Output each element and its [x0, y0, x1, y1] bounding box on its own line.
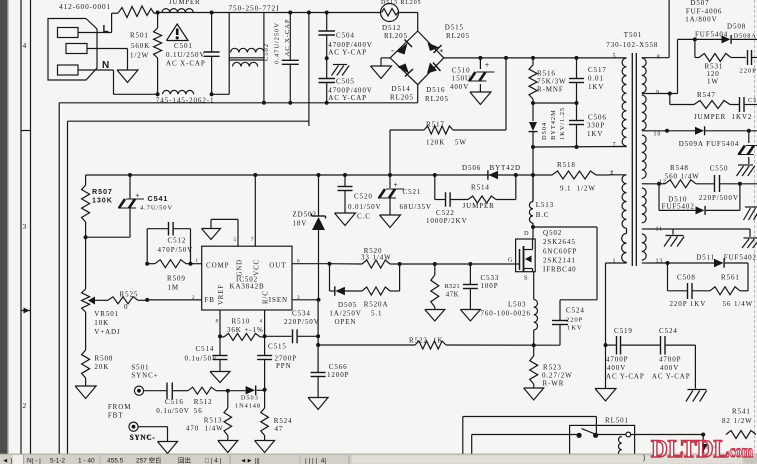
svg-text:+: + [394, 182, 399, 189]
ground C510 [470, 92, 491, 105]
wire SYNC- to ground [138, 427, 167, 442]
svg-text:FUF-4006: FUF-4006 [686, 8, 722, 16]
svg-text:C504: C504 [336, 31, 355, 39]
svg-text:+: + [136, 193, 141, 200]
svg-text:L503: L503 [508, 301, 526, 309]
svg-text:33 1/4W: 33 1/4W [361, 254, 392, 262]
label 412-600-0001 [59, 2, 111, 11]
svg-text:C534: C534 [292, 310, 311, 318]
resistor R525 [108, 291, 147, 312]
svg-text:6: 6 [297, 259, 301, 265]
svg-text:C521: C521 [403, 188, 422, 196]
ground bridge minus [371, 66, 392, 79]
svg-text:82 1/2W: 82 1/2W [722, 417, 753, 425]
resistor R531 [695, 39, 746, 85]
svg-text:400V: 400V [660, 364, 679, 372]
svg-text:FUF5404: FUF5404 [695, 31, 728, 39]
label Q502 types [543, 229, 577, 274]
svg-text:L513: L513 [536, 201, 554, 209]
svg-text:R561: R561 [721, 274, 740, 282]
wire snubber mid [531, 101, 579, 105]
svg-text:D: D [524, 230, 529, 237]
status bar text [2, 455, 645, 464]
svg-text:JUMPER: JUMPER [169, 0, 200, 6]
svg-text:DLTDL: DLTDL [651, 436, 729, 463]
svg-text:R520A: R520A [364, 301, 389, 309]
svg-text:2: 2 [23, 401, 28, 410]
slant marking at Y-cap node [332, 65, 350, 76]
svg-text:75K/3W: 75K/3W [537, 78, 567, 86]
sheet row tick y130 [21, 130, 31, 132]
svg-text:R514: R514 [471, 184, 490, 192]
diode D505 and resistor R520A [329, 264, 399, 326]
label D512 [382, 24, 408, 40]
svg-text:400V: 400V [450, 83, 469, 91]
capacitor C516 [144, 383, 190, 416]
capacitor C519 Y-cap [606, 327, 661, 381]
ground C566 [308, 398, 328, 410]
svg-text:1A/800V: 1A/800V [685, 16, 717, 24]
resistor R513 [186, 391, 232, 441]
svg-text:RL205: RL205 [425, 95, 449, 103]
jumper resistor in L line [118, 6, 158, 18]
svg-text:RL205: RL205 [446, 32, 470, 40]
wire relay feed inner [472, 435, 577, 455]
svg-text:VREF: VREF [218, 284, 225, 305]
wire GND pin5 [211, 219, 238, 246]
svg-text:C522: C522 [436, 209, 455, 217]
svg-text:560K: 560K [131, 42, 150, 50]
label L [103, 24, 110, 35]
wire FB pin2 [145, 295, 202, 302]
ground SYNC- [158, 442, 178, 454]
wire VREF pin8 down [216, 310, 223, 338]
svg-text:| | | | 4|: | | | | 4| [305, 458, 326, 464]
label 745-145-2062-1 [156, 96, 215, 104]
slant ground C531 [737, 165, 755, 176]
svg-text:130K: 130K [92, 196, 113, 205]
label S501 [131, 364, 158, 380]
svg-text:750-250-772I: 750-250-772I [229, 4, 280, 13]
wire earth from plug [87, 49, 128, 71]
resistor R561 [710, 274, 753, 309]
svg-text:1KV: 1KV [567, 325, 583, 332]
capacitor C541 [118, 175, 173, 237]
resistor R517 [390, 58, 506, 175]
wire drain snubber to C524 [533, 227, 597, 345]
svg-text:4700P: 4700P [606, 356, 628, 364]
svg-text:R516: R516 [537, 70, 556, 78]
wire bridge minus to ground [381, 58, 390, 66]
svg-text:5: 5 [613, 54, 617, 60]
svg-text:1: 1 [613, 259, 617, 265]
svg-text:1A/250V: 1A/250V [329, 310, 361, 318]
svg-text:C550: C550 [710, 165, 729, 173]
svg-text:BYT42M: BYT42M [550, 109, 557, 140]
svg-text:+: + [439, 46, 444, 55]
svg-text:COMP: COMP [206, 261, 229, 269]
svg-text:D504: D504 [541, 122, 548, 140]
svg-text:5W: 5W [455, 139, 467, 147]
svg-text:R521: R521 [445, 283, 461, 290]
svg-text:18V: 18V [293, 220, 308, 228]
capacitor C530 [740, 50, 757, 75]
potentiometer VR501 [82, 237, 121, 336]
resistor R524 [261, 390, 293, 441]
label 750-250-772I [229, 4, 280, 13]
svg-text:R509: R509 [167, 275, 186, 283]
svg-text:OPEN: OPEN [335, 318, 357, 326]
right edge dashed line [754, 0, 756, 452]
svg-text:56: 56 [194, 407, 203, 415]
diode D503 [228, 386, 267, 410]
svg-text:C524: C524 [566, 307, 585, 315]
svg-text:6NC60FP: 6NC60FP [543, 248, 577, 256]
svg-text:ZD502: ZD502 [293, 211, 317, 219]
svg-text:D505: D505 [338, 301, 357, 309]
svg-text:AC Y-CAP: AC Y-CAP [328, 94, 367, 102]
ground C514 [210, 372, 230, 383]
wire relay out [648, 433, 705, 458]
svg-text:36K +-1%: 36K +-1% [227, 326, 264, 334]
status bar [0, 454, 757, 464]
svg-text:R-MNF: R-MNF [537, 86, 564, 94]
svg-text:5-1-2: 5-1-2 [50, 458, 66, 464]
wire VCC pin7 [251, 175, 256, 246]
svg-text:BYT42D: BYT42D [490, 164, 521, 172]
transformer primary winding [612, 54, 627, 149]
fuse F501 [381, 0, 422, 22]
wire N to choke [212, 93, 230, 95]
svg-text:R513: R513 [204, 417, 223, 425]
svg-text:412-600-0001: 412-600-0001 [59, 2, 111, 11]
inductor L503 [156, 90, 214, 96]
svg-text:1KV/1.25: 1KV/1.25 [559, 107, 566, 140]
svg-text:5.1: 5.1 [371, 310, 382, 318]
svg-text:C505: C505 [336, 77, 355, 85]
wire pin1 down [604, 263, 608, 347]
wire AC L top rail [156, 11, 381, 15]
svg-text:20K: 20K [95, 363, 110, 371]
wire fuse to bridge [399, 13, 418, 32]
svg-text:D506: D506 [462, 164, 481, 172]
resistor R501 [130, 13, 162, 95]
svg-text:D516: D516 [426, 86, 445, 94]
wire HV+ rail [444, 56, 627, 60]
svg-text:RL205: RL205 [390, 94, 414, 102]
svg-text:D503: D503 [241, 395, 259, 402]
ground IC pin5 [202, 229, 221, 240]
resistor R508 [82, 312, 114, 386]
svg-text:56 1/4W: 56 1/4W [723, 300, 754, 308]
svg-text:10: 10 [654, 131, 662, 137]
svg-text:2: 2 [611, 171, 615, 177]
svg-text:C502: C502 [263, 43, 270, 61]
AC inlet connector J501 [48, 19, 97, 81]
capacitor C502 X-cap [263, 13, 299, 103]
svg-text:R524: R524 [274, 417, 293, 425]
svg-text:C520: C520 [354, 193, 373, 201]
transformer T501 [606, 31, 658, 49]
svg-text:D513 RL205: D513 RL205 [381, 0, 422, 6]
svg-text:10K: 10K [94, 319, 109, 327]
svg-text:4: 4 [23, 41, 28, 50]
svg-text:R510: R510 [232, 318, 251, 326]
resistor R510 [220, 318, 265, 341]
svg-text:R522: R522 [409, 337, 428, 345]
wire R507 C541 join [84, 235, 130, 239]
svg-text:□ | 4 |: □ | 4 | [205, 458, 222, 464]
label FROM FBT [108, 403, 131, 420]
capacitor C517 [569, 58, 607, 103]
capacitor C521 [378, 175, 432, 215]
diode D511 row [648, 254, 757, 291]
svg-text:S501: S501 [131, 364, 149, 372]
capacitor C504 Y-cap [318, 13, 372, 59]
svg-text:0.27/2W: 0.27/2W [542, 372, 573, 380]
transformer core [632, 53, 636, 266]
wire L from plug [78, 13, 118, 32]
capacitor C534 [265, 310, 321, 344]
transformer secondary windings [642, 55, 667, 265]
relay RL501 [570, 417, 648, 460]
wire to pin7 [531, 145, 627, 149]
svg-text:C524: C524 [659, 327, 678, 335]
resistor R509 [145, 260, 192, 292]
svg-text:D508A: D508A [734, 32, 757, 39]
svg-text:AC X-CAP: AC X-CAP [284, 19, 291, 57]
svg-text:AC Y-CAP: AC Y-CAP [652, 373, 691, 381]
svg-text:C517: C517 [588, 66, 607, 74]
svg-text:C519: C519 [614, 327, 633, 335]
wire ISEN vertical [316, 300, 320, 347]
wire ISEN pin3 [292, 295, 321, 302]
diode D506 [462, 164, 521, 180]
IC U502 KA3842B [202, 246, 292, 310]
svg-text:1KV: 1KV [588, 83, 604, 91]
capacitor C533 [463, 264, 499, 310]
capacitor C515 [257, 336, 297, 389]
svg-text:GND: GND [237, 259, 244, 276]
wire riser to top rail [308, 13, 310, 127]
svg-text:1M: 1M [168, 284, 180, 292]
svg-text:R508: R508 [95, 355, 114, 363]
svg-text:0.01/50V: 0.01/50V [348, 203, 381, 211]
svg-text:1 - 40: 1 - 40 [78, 458, 95, 464]
svg-text:R547: R547 [697, 91, 716, 99]
svg-text:D511: D511 [696, 254, 715, 262]
wire source sense rail [318, 337, 560, 350]
svg-text:0.01: 0.01 [588, 75, 604, 83]
svg-text:AC Y-CAP: AC Y-CAP [606, 373, 645, 381]
capacitor C510 bulk [450, 58, 494, 92]
capacitor C550 [699, 165, 757, 203]
svg-text:0.1U/250V: 0.1U/250V [166, 51, 205, 59]
resistor R518 [552, 161, 610, 193]
node C504 C505 junction [325, 56, 329, 60]
svg-text:D509A FUF5404: D509A FUF5404 [679, 140, 740, 148]
svg-text:ISEN: ISEN [269, 296, 288, 304]
wire relay feed outer [463, 417, 597, 455]
svg-text:SYNC+: SYNC+ [131, 372, 158, 380]
slant ground Y-caps [686, 390, 707, 402]
svg-text:L: L [103, 24, 110, 35]
svg-text:150U: 150U [452, 75, 471, 83]
inductor L513 base drive [529, 175, 554, 227]
svg-text:220P/50V: 220P/50V [284, 318, 320, 326]
svg-text:1W: 1W [707, 78, 719, 86]
svg-text:N: N [102, 60, 110, 71]
ground C520 [335, 213, 356, 226]
svg-text:7: 7 [613, 142, 617, 148]
svg-text:◄ ): ◄ ) [2, 458, 12, 464]
sheet border left lines [21, 0, 31, 454]
svg-text:FB: FB [205, 296, 215, 304]
svg-text:R523: R523 [543, 363, 562, 371]
wire outer loop left [58, 103, 60, 454]
resistor R507 [82, 175, 113, 237]
svg-text:1000P/2KV: 1000P/2KV [426, 217, 468, 225]
resistor R521 [431, 264, 460, 310]
svg-text:1/2W: 1/2W [130, 52, 149, 60]
ground R513 [218, 441, 238, 453]
label D515 [445, 24, 470, 41]
wire VCC rail [86, 173, 552, 177]
svg-text:KA3842B: KA3842B [230, 283, 265, 291]
svg-text:D512: D512 [382, 24, 401, 32]
wire bridge bottom [417, 85, 419, 103]
svg-text:FBT: FBT [108, 412, 124, 420]
svg-text:C.C: C.C [357, 213, 371, 221]
svg-text:C512: C512 [168, 237, 187, 245]
svg-text:1200P: 1200P [327, 371, 349, 379]
svg-text:C515: C515 [268, 343, 287, 351]
label SYNC- [130, 434, 156, 442]
svg-text:IFRBC40: IFRBC40 [543, 266, 577, 274]
svg-text:9.1 1/2W: 9.1 1/2W [560, 185, 596, 193]
row label 2 [23, 401, 28, 410]
ground R523 [524, 388, 544, 400]
svg-text:PPN: PPN [276, 362, 292, 370]
capacitor C505 Y-cap [318, 58, 372, 103]
ground C521 [380, 215, 401, 228]
svg-text:C506: C506 [588, 114, 607, 122]
svg-text:220P: 220P [740, 68, 757, 75]
svg-text:AC X-CAP: AC X-CAP [166, 60, 206, 68]
row label 4 [23, 41, 28, 50]
svg-text:C541: C541 [148, 194, 169, 203]
svg-text:VR501: VR501 [94, 310, 119, 318]
wire inner loop left [68, 121, 309, 454]
svg-text:FROM: FROM [108, 403, 131, 411]
svg-text:68U/35V: 68U/35V [400, 203, 432, 211]
wire N low rail [59, 101, 418, 105]
ground earth pin [117, 70, 138, 83]
svg-text:0.47U/250V: 0.47U/250V [274, 22, 281, 64]
svg-text:R-WR: R-WR [543, 380, 565, 388]
svg-text:SYNC-: SYNC- [130, 434, 156, 442]
svg-text:220P: 220P [566, 317, 583, 324]
svg-text:1N4148: 1N4148 [235, 403, 261, 410]
diode D520 hidden [699, 444, 718, 458]
svg-text:R548: R548 [670, 164, 689, 172]
svg-text:R525: R525 [120, 291, 139, 299]
svg-text:FUF5402: FUF5402 [662, 203, 695, 211]
connector SYNC- [129, 422, 138, 431]
svg-text:◄► |||: ◄► ||| [240, 458, 260, 464]
resistor R520 [330, 247, 402, 268]
label D516 [425, 86, 449, 103]
slant ground pin11 a [664, 236, 684, 247]
svg-text:1KV: 1KV [587, 130, 603, 138]
slant ground right edge [744, 207, 757, 220]
diode D509A row [648, 126, 757, 148]
svg-text:C566: C566 [329, 363, 348, 371]
safety warning triangle [167, 24, 189, 41]
svg-text:回出: 回出 [178, 456, 191, 464]
left window edge strip [0, 0, 9, 455]
svg-text:T501: T501 [624, 31, 642, 39]
svg-text:FUF5402: FUF5402 [724, 254, 757, 262]
svg-text:2SK2645: 2SK2645 [543, 238, 576, 246]
svg-text:+: + [485, 62, 490, 69]
svg-text:OUT: OUT [269, 261, 286, 269]
svg-text:D508: D508 [727, 22, 746, 30]
svg-text:0: 0 [124, 303, 128, 311]
svg-text:D515: D515 [445, 24, 464, 32]
svg-text:.com: .com [726, 441, 753, 461]
bridge rectifier D512 D514 D515 D516 [390, 31, 444, 85]
svg-text:455.5: 455.5 [107, 458, 124, 464]
svg-text:AC Y-CAP: AC Y-CAP [328, 48, 367, 56]
capacitor C522 and resistor R514 [426, 175, 516, 225]
label D514 [390, 85, 414, 102]
svg-text:JUMPER 1KV2: JUMPER 1KV2 [694, 113, 752, 121]
svg-text:R512: R512 [194, 398, 213, 406]
wire drain [531, 225, 535, 239]
svg-text:Q502: Q502 [543, 229, 562, 237]
resistor R547 row [668, 91, 757, 121]
connector SYNC+ [134, 386, 143, 395]
transistor Q502 MOSFET [508, 230, 535, 282]
svg-text:C5: C5 [748, 97, 757, 104]
svg-text:C501: C501 [174, 42, 193, 50]
ground pin1 [595, 345, 616, 401]
ground R508 [75, 386, 96, 399]
svg-text:C508: C508 [677, 274, 696, 282]
svg-text:RL501: RL501 [605, 417, 629, 425]
resistor R523 [530, 345, 573, 388]
svg-text:-: - [391, 46, 395, 56]
zener ZD502 [293, 175, 326, 300]
row label 3 [23, 222, 28, 231]
svg-text:5: 5 [234, 237, 238, 243]
svg-text:330P: 330P [587, 122, 605, 130]
svg-text:730-102-X558: 730-102-X558 [606, 41, 658, 49]
svg-text:7: 7 [251, 237, 255, 243]
capacitor C520 [338, 175, 382, 221]
svg-text:2: 2 [192, 295, 196, 301]
watermark DLTDL.com [651, 436, 753, 463]
svg-text:47K: 47K [446, 292, 459, 299]
transformer aux winding [606, 171, 627, 265]
inductor L502 JUMPER [162, 0, 200, 13]
svg-text:0.1u/50V: 0.1u/50V [156, 407, 189, 415]
ground R521 [425, 310, 445, 322]
svg-text:560 1/4W: 560 1/4W [665, 173, 700, 181]
ground R524 [255, 441, 275, 453]
svg-text:1: 1 [196, 258, 200, 264]
